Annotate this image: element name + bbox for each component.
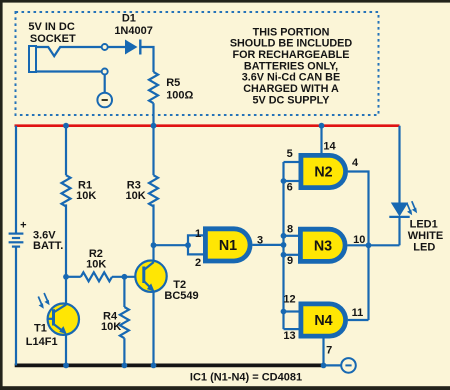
svg-text:10K: 10K	[86, 258, 106, 270]
wire: +V rail to N2 pin14	[320, 126, 322, 154]
AND gate N2 (outline)	[299, 153, 349, 190]
dashed enclosure box (rechargeable portion)	[16, 12, 379, 115]
AND gate N4 (outline)	[299, 302, 349, 339]
svg-text:N1: N1	[219, 238, 237, 254]
junction: R3 bottom / T2 collector / N1 input feed	[151, 242, 157, 248]
svg-text:IC1 (N1-N4) = CD4081: IC1 (N1-N4) = CD4081	[190, 372, 302, 384]
wire: R2 right to T2 base	[112, 276, 144, 278]
svg-text:6: 6	[287, 182, 293, 194]
junction: N1 input tie	[185, 242, 191, 248]
svg-text:4: 4	[352, 157, 359, 169]
wire: N3 output pin10 to LED cathode column	[348, 244, 400, 246]
svg-text:N3: N3	[314, 239, 332, 255]
wire: N4 pin7 to ground rail	[322, 339, 324, 366]
note text block	[230, 26, 353, 106]
wire: bus to N3 pin9	[284, 254, 299, 256]
junction: R2 left / T1 collector	[63, 274, 69, 280]
wire: N4 output pin11	[348, 319, 369, 321]
resistor R2 10K	[81, 272, 112, 281]
svg-text:CHARGED WITH A: CHARGED WITH A	[243, 83, 339, 95]
svg-text:N4: N4	[314, 313, 332, 329]
light arrows into T1	[38, 293, 49, 309]
LED light arrows	[407, 201, 417, 215]
terminal (sleeve, open circle)	[102, 69, 108, 75]
resistor R1 10K	[62, 175, 71, 206]
svg-text:R5: R5	[166, 77, 180, 89]
wire: +V supply rail (red)	[15, 124, 400, 127]
wire: +V rail down to R3	[152, 126, 154, 176]
svg-text:D1: D1	[122, 13, 136, 25]
AND gate N1 (body)	[208, 231, 248, 258]
junction: T1 emitter at ground rail	[63, 363, 69, 369]
svg-text:L14F1: L14F1	[26, 336, 58, 348]
AND gate N1 (outline)	[203, 226, 253, 263]
svg-text:3: 3	[257, 235, 263, 247]
resistor R4 10K	[120, 307, 129, 338]
svg-text:10K: 10K	[101, 321, 121, 333]
junction: R2/R4/T2 base	[122, 274, 128, 280]
wire: ground rail (black)	[15, 364, 325, 368]
wire: R3 bottom to T2 collector	[152, 204, 154, 262]
wire: terminal to diode D1 anode	[108, 46, 125, 48]
junction: pin14 at +V rail	[319, 123, 325, 129]
svg-text:N2: N2	[314, 165, 332, 181]
AND gate N3 (body)	[303, 232, 343, 259]
wire: R2/R4 junction down to R4	[123, 277, 125, 307]
wire: +V rail down to R1	[65, 126, 67, 176]
terminal (tip, open circle)	[102, 44, 108, 50]
wire: bus to N3 pin8	[284, 235, 299, 237]
svg-text:WHITE: WHITE	[408, 230, 443, 242]
wire: battery + to +V rail	[15, 126, 17, 234]
svg-text:+: +	[20, 220, 26, 232]
wire: bus to N2 pin5	[284, 161, 300, 163]
svg-text:SOCKET: SOCKET	[30, 33, 76, 45]
wire: bus to N4 pin12	[284, 310, 300, 312]
svg-text:LED1: LED1	[410, 219, 438, 231]
wire: socket sleeve to terminal	[36, 70, 102, 72]
svg-text:14: 14	[323, 140, 336, 152]
DC socket J1	[29, 46, 36, 72]
wire: LED cathode down and left to junction	[398, 217, 400, 245]
wire: LED anode from +V rail	[398, 126, 400, 203]
battery BATT 3.6V	[9, 234, 24, 247]
svg-text:10: 10	[353, 234, 365, 246]
wire: sleeve terminal down to negative symbol	[104, 75, 106, 93]
wire: bus to N2 pin6	[284, 180, 300, 182]
minus sign in bottom negative symbol	[345, 364, 351, 366]
svg-text:THIS PORTION: THIS PORTION	[253, 26, 330, 38]
svg-text:1N4007: 1N4007	[114, 25, 153, 37]
svg-text:5V DC SUPPLY: 5V DC SUPPLY	[252, 94, 330, 106]
AND gate N3 (outline)	[298, 227, 348, 264]
AND gate N2 (body)	[303, 158, 343, 185]
svg-text:11: 11	[352, 307, 364, 319]
svg-text:SHOULD BE INCLUDED: SHOULD BE INCLUDED	[230, 38, 353, 50]
wire: battery - down to ground rail	[15, 247, 17, 366]
svg-text:3.6V Ni-Cd CAN BE: 3.6V Ni-Cd CAN BE	[242, 72, 340, 84]
junction: R5/R3 at +V rail	[151, 123, 157, 129]
junction: bus at N2 pin6	[281, 178, 287, 184]
junction: bus at N3 pin9	[281, 252, 287, 258]
wire: ground rail to negative symbol	[325, 364, 342, 366]
svg-text:13: 13	[283, 330, 295, 342]
wire: N1 input tie bar	[188, 235, 204, 254]
wire: R4 bottom to ground rail	[123, 338, 125, 365]
svg-text:T1: T1	[34, 323, 47, 335]
resistor R5 100 ohm	[149, 72, 158, 103]
wire: R5 bottom to +V rail	[152, 103, 154, 126]
junction: R4 bottom at ground rail	[122, 363, 128, 369]
junction: bus at N3 pin8	[281, 233, 287, 239]
wire: T2 emitter to ground rail	[152, 291, 154, 366]
svg-text:FOR RECHARGEABLE: FOR RECHARGEABLE	[233, 49, 350, 61]
wire: N2 output pin4 to output column	[348, 172, 369, 321]
svg-text:BC549: BC549	[164, 290, 198, 302]
svg-text:BATTERIES ONLY,: BATTERIES ONLY,	[244, 60, 338, 72]
wire: collector node to N1 input connector	[154, 244, 189, 246]
svg-text:100Ω: 100Ω	[166, 90, 193, 102]
svg-text:LED: LED	[413, 242, 435, 254]
resistor R3 10K	[149, 175, 158, 206]
junction: bus at N1 pin3	[281, 242, 287, 248]
negative terminal symbol (bottom circle)	[341, 358, 356, 373]
transistor T1 L14F1 (phototransistor)	[48, 304, 79, 335]
svg-text:10K: 10K	[126, 190, 146, 202]
svg-text:9: 9	[287, 255, 293, 267]
junction: pin7 at ground rail	[321, 363, 327, 369]
junction: R1 top at +V rail	[63, 123, 69, 129]
svg-text:7: 7	[326, 345, 332, 357]
wire: gate input bus (vertical)	[282, 162, 284, 329]
svg-text:8: 8	[287, 223, 293, 235]
transistor T2 BC549	[135, 261, 166, 292]
wire: T1 emitter to ground rail	[65, 334, 67, 366]
wire: socket tip to terminal	[36, 47, 102, 56]
negative terminal symbol (circle)	[97, 93, 112, 108]
wire: R1 bottom to T1 collector	[65, 204, 67, 304]
AND gate N4 (body)	[303, 306, 343, 333]
svg-text:1: 1	[195, 228, 201, 240]
wire: bus to N4 pin13	[284, 328, 300, 330]
svg-text:12: 12	[283, 293, 295, 305]
svg-text:BATT.: BATT.	[33, 240, 63, 252]
svg-text:2: 2	[195, 257, 201, 269]
wire: N1 output pin3 to gate input bus	[253, 244, 284, 246]
junction: outputs at LED cathode	[366, 242, 372, 248]
wire: junction to R2 left	[66, 276, 81, 278]
minus sign in top negative symbol	[102, 99, 108, 101]
svg-text:5V IN DC: 5V IN DC	[28, 21, 75, 33]
svg-text:5: 5	[287, 148, 293, 160]
junction: bus at N4 pin12	[281, 309, 287, 315]
LED1 white LED	[389, 203, 409, 217]
wire: D1 cathode to R5 top	[140, 47, 153, 72]
svg-text:10K: 10K	[76, 190, 96, 202]
junction: T2 emitter at ground rail	[151, 363, 157, 369]
diode D1 1N4007	[125, 40, 140, 55]
